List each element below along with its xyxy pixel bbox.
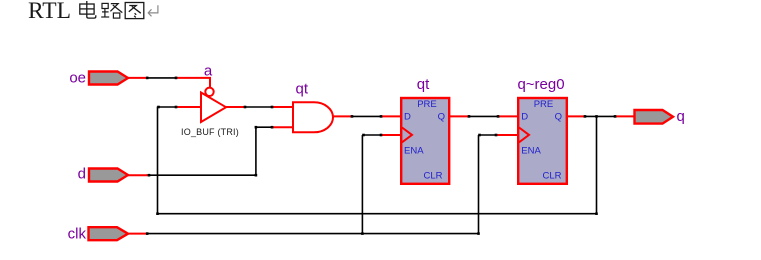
svg-text:ENA: ENA	[521, 146, 541, 157]
svg-text:Q: Q	[438, 112, 445, 123]
svg-text:clk: clk	[68, 225, 87, 242]
svg-text:PRE: PRE	[534, 99, 554, 110]
svg-text:oe: oe	[69, 69, 86, 86]
svg-text:CLR: CLR	[542, 171, 561, 182]
svg-text:D: D	[521, 112, 528, 123]
svg-text:PRE: PRE	[417, 99, 437, 110]
svg-text:q: q	[677, 108, 685, 125]
svg-text:D: D	[404, 112, 411, 123]
svg-text:a: a	[204, 63, 213, 80]
svg-text:RTL: RTL	[28, 0, 71, 24]
svg-text:IO_BUF (TRI): IO_BUF (TRI)	[181, 127, 239, 137]
svg-text:q~reg0: q~reg0	[517, 76, 564, 93]
svg-text:qt: qt	[296, 81, 309, 98]
svg-text:Q: Q	[555, 112, 562, 123]
svg-text:qt: qt	[417, 76, 430, 93]
svg-text:d: d	[78, 166, 86, 183]
svg-text:ENA: ENA	[404, 146, 424, 157]
svg-text:CLR: CLR	[423, 171, 442, 182]
